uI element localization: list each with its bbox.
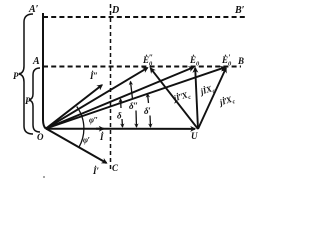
svg-text:P′: P′	[13, 71, 21, 81]
reactance drop vector U-E0 (jIXc)	[195, 68, 198, 129]
current vector I (tip on axis)	[96, 128, 104, 130]
delta'' down arrow	[135, 111, 138, 128]
delta down arrow	[121, 119, 124, 127]
angle arc phi at O	[77, 107, 84, 148]
svg-text:A: A	[32, 56, 40, 67]
emf vector O-E0''	[46, 68, 148, 129]
current vector I''	[46, 85, 102, 129]
dashed line A-B	[43, 66, 241, 68]
svg-text:B′: B′	[234, 5, 245, 16]
svg-text:P: P	[25, 96, 31, 106]
emf vector O-E0'	[46, 67, 225, 128]
reactance drop vector U-E0'' (jI''Xc)	[151, 68, 199, 129]
dashed vertical line D-C	[110, 4, 112, 170]
svg-text:δ′: δ′	[144, 106, 151, 116]
svg-text:İ′: İ′	[92, 166, 100, 176]
speck noise	[43, 176, 45, 178]
svg-text:δ″: δ″	[129, 101, 138, 111]
current vector I'	[46, 129, 107, 164]
vertical segment O-A'	[43, 13, 46, 129]
angle delta' annotation (to E0' ray): up arrow	[148, 94, 149, 103]
svg-text:A′: A′	[28, 4, 39, 15]
svg-text:D: D	[111, 5, 119, 16]
svg-text:B: B	[237, 56, 244, 66]
svg-text:φ″: φ″	[89, 115, 98, 125]
emf vector O-E0	[46, 67, 194, 128]
reactance drop vector U-E0' (jI'Xc)	[198, 68, 226, 129]
svg-text:C: C	[112, 163, 119, 173]
brace P (inner)	[29, 68, 40, 132]
angle delta annotation (to E0 ray): up arrow	[120, 99, 123, 108]
brace P' (outer)	[19, 14, 33, 134]
svg-text:İ: İ	[99, 132, 104, 142]
svg-text:U: U	[191, 131, 198, 141]
dashed line A'-B' (top)	[43, 16, 246, 18]
svg-text:İ″: İ″	[89, 71, 98, 81]
svg-text:O: O	[37, 132, 44, 142]
axis / voltage vector O-U	[46, 128, 195, 130]
svg-text:φ′: φ′	[83, 135, 90, 145]
delta' down arrow	[149, 116, 152, 128]
svg-text:δ: δ	[117, 111, 122, 121]
angle delta'' annotation (to E0'' ray): up arrow	[131, 82, 133, 100]
